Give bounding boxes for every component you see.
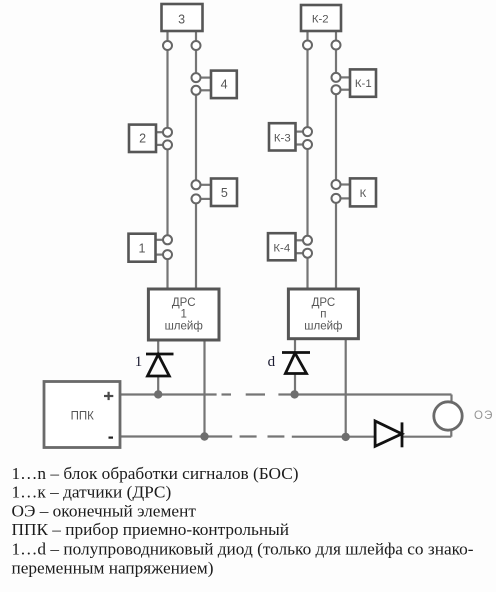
svg-text:ОЭ – оконечный элемент: ОЭ – оконечный элемент xyxy=(12,501,197,520)
svg-text:шлейф: шлейф xyxy=(304,320,342,332)
svg-text:п: п xyxy=(320,308,326,320)
svg-text:К-1: К-1 xyxy=(355,78,372,90)
svg-text:2: 2 xyxy=(139,132,146,146)
svg-text:ДРС: ДРС xyxy=(172,297,196,309)
svg-text:1…к – датчики (ДРС): 1…к – датчики (ДРС) xyxy=(12,483,172,502)
svg-text:шлейф: шлейф xyxy=(165,320,203,332)
svg-text:d: d xyxy=(268,354,276,370)
svg-text:ОЭ: ОЭ xyxy=(474,410,494,422)
svg-text:1: 1 xyxy=(180,308,186,320)
svg-text:ППК – прибор приемно-контрольн: ППК – прибор приемно-контрольный xyxy=(12,520,290,539)
svg-text:переменным напряжением): переменным напряжением) xyxy=(12,558,214,577)
svg-text:1: 1 xyxy=(139,241,146,255)
svg-text:К-4: К-4 xyxy=(273,242,290,254)
svg-text:ДРС: ДРС xyxy=(312,297,336,309)
svg-text:3: 3 xyxy=(178,13,185,27)
svg-text:5: 5 xyxy=(221,186,228,200)
svg-text:К: К xyxy=(360,188,367,200)
svg-text:1…d – полупроводниковый диод (: 1…d – полупроводниковый диод (только для… xyxy=(12,539,474,558)
svg-text:1: 1 xyxy=(135,354,143,370)
svg-text:К-2: К-2 xyxy=(312,13,329,25)
svg-text:1…n – блок обработки сигналов: 1…n – блок обработки сигналов (БОС) xyxy=(12,464,299,483)
svg-text:4: 4 xyxy=(221,78,228,92)
svg-text:ППК: ППК xyxy=(71,411,95,423)
svg-text:К-3: К-3 xyxy=(274,132,291,144)
